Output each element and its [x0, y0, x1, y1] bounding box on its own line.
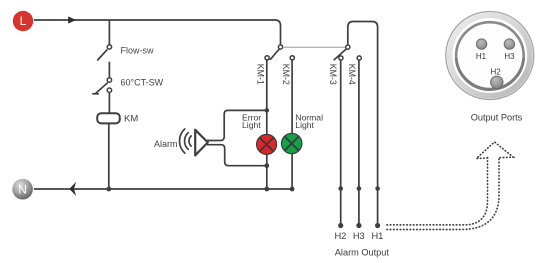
port H1	[476, 39, 486, 49]
contact KM-4	[357, 56, 361, 60]
svg-text:H3: H3	[353, 231, 365, 241]
alarm upper wire	[207, 110, 267, 140]
wire: top line from L to KM-1/2 switch pivot	[34, 20, 281, 45]
svg-text:H3: H3	[504, 52, 515, 61]
relay coil KM	[97, 113, 120, 123]
svg-text:H1: H1	[476, 52, 487, 61]
contact KM-1	[265, 56, 269, 60]
switch Flow-sw contact	[107, 45, 111, 49]
switch KM-1/KM-2 blade	[270, 50, 279, 60]
junction: alarm upper wire on error wire	[265, 108, 270, 113]
switch Flow-sw blade	[98, 50, 107, 60]
junction dots on H wires	[338, 186, 343, 191]
switch KM-1/KM-2 pivot	[278, 45, 282, 49]
svg-text:KM-2: KM-2	[281, 64, 291, 85]
dotted arrow to output ports	[387, 142, 513, 230]
svg-text:Light: Light	[295, 120, 314, 130]
alarm lower wire	[207, 145, 267, 166]
switch 60CT-SW upper contact	[107, 78, 111, 82]
svg-text:Alarm Output: Alarm Output	[335, 247, 390, 257]
contact KM-2	[290, 56, 294, 60]
switch KM-3/KM-4 blade	[334, 49, 346, 59]
alarm sound waves	[189, 136, 191, 146]
svg-text:Alarm: Alarm	[154, 139, 178, 149]
mechanical link line between switch groups	[283, 46, 346, 48]
current arrow right on top line	[68, 16, 76, 23]
svg-text:H2: H2	[490, 67, 501, 76]
terminal dots H2 H3 H1	[338, 223, 343, 228]
wire: bottom N line	[34, 188, 292, 190]
wire: 60CT-SW to KM coil	[108, 93, 110, 113]
wire: top bar of KM-3/4 group and H1 wire	[348, 22, 378, 226]
wire: KM-3 contact down to H2	[340, 60, 342, 225]
svg-text:KM: KM	[124, 114, 138, 125]
indicator Error light	[257, 134, 277, 154]
wire: KM-1 contact down to Error light	[266, 60, 268, 134]
svg-text:60°CT-SW: 60°CT-SW	[121, 78, 164, 88]
wire: left branch vertical (top segment)	[108, 20, 110, 45]
switch 60CT-SW blade	[93, 83, 108, 94]
wire: KM-2 contact down to Normal light	[291, 60, 293, 133]
switch KM-3/KM-4 pivot	[346, 45, 350, 49]
svg-text:Flow-sw: Flow-sw	[121, 46, 154, 56]
svg-text:Output Ports: Output Ports	[471, 113, 523, 123]
svg-text:KM-3: KM-3	[328, 64, 338, 85]
svg-text:H2: H2	[334, 231, 346, 241]
svg-text:KM-1: KM-1	[256, 64, 266, 85]
junction: normal wire at N line end	[290, 187, 295, 192]
port H3	[504, 39, 514, 49]
junction: alarm lower wire on error wire	[264, 163, 269, 168]
junction: KM branch on N line	[106, 187, 111, 192]
N terminal	[12, 179, 33, 200]
svg-text:L: L	[20, 14, 27, 28]
indicator Normal light	[282, 133, 302, 153]
svg-text:H1: H1	[371, 231, 383, 241]
svg-text:N: N	[18, 182, 27, 196]
output ports connector	[446, 12, 534, 100]
L terminal	[13, 11, 33, 31]
svg-text:Light: Light	[242, 120, 261, 130]
port H2	[491, 76, 503, 88]
wire: Error light down to N line	[266, 155, 268, 190]
wire: KM coil to N line	[108, 124, 110, 189]
current arrow left on N line	[69, 182, 76, 196]
svg-text:KM-4: KM-4	[347, 64, 357, 85]
junction: error wire on N line	[264, 187, 269, 192]
contact KM-3	[339, 56, 343, 60]
alarm speaker	[195, 130, 208, 156]
wire: between Flow-sw and 60CT-SW	[108, 62, 110, 78]
wire: Normal light down to N line	[291, 154, 293, 189]
wire: KM-4 contact down to H3	[358, 60, 360, 225]
switch 60CT-SW lower contact	[107, 88, 111, 92]
